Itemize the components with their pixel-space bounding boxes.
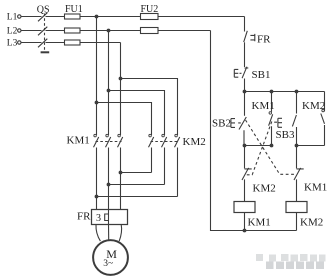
svg-text:3~: 3~ [103, 259, 113, 269]
svg-text:L2: L2 [7, 27, 18, 37]
svg-text:SB1: SB1 [252, 69, 271, 81]
svg-text:KM2: KM2 [183, 136, 206, 148]
svg-text:SB2: SB2 [212, 118, 231, 130]
svg-text:3: 3 [96, 213, 101, 224]
svg-text:KM1: KM1 [252, 100, 275, 112]
svg-text:FR: FR [257, 34, 271, 46]
svg-text:FU2: FU2 [141, 4, 159, 15]
svg-text:QS: QS [37, 4, 50, 15]
svg-text:KM1: KM1 [248, 217, 271, 229]
svg-text:KM2: KM2 [300, 217, 323, 229]
svg-text:L3: L3 [7, 39, 18, 49]
svg-text:FU1: FU1 [65, 4, 83, 15]
svg-text:KM1: KM1 [67, 134, 90, 146]
svg-text:FR: FR [77, 211, 91, 223]
svg-text:KM2: KM2 [302, 100, 325, 112]
svg-text:L1: L1 [7, 13, 18, 23]
svg-text:KM1: KM1 [304, 182, 327, 194]
svg-text:KM2: KM2 [253, 183, 276, 195]
svg-text:SB3: SB3 [276, 129, 295, 141]
